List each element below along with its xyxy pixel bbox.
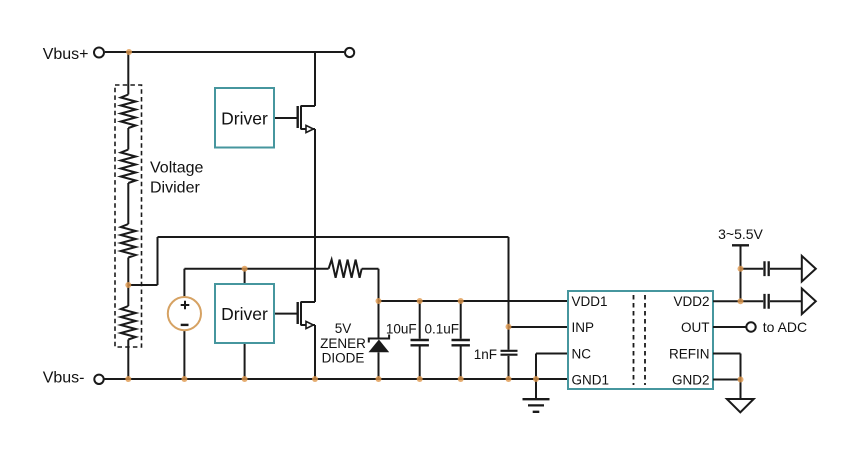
svg-text:to ADC: to ADC xyxy=(763,319,807,335)
svg-text:Vbus-: Vbus- xyxy=(43,370,85,387)
svg-text:VDD1: VDD1 xyxy=(572,294,608,309)
svg-text:ZENER: ZENER xyxy=(320,336,366,351)
svg-text:0.1uF: 0.1uF xyxy=(425,322,460,337)
svg-text:10uF: 10uF xyxy=(386,322,417,337)
svg-text:Vbus+: Vbus+ xyxy=(43,46,89,63)
svg-text:NC: NC xyxy=(572,346,592,361)
svg-text:5V: 5V xyxy=(335,321,352,336)
svg-text:GND1: GND1 xyxy=(572,372,610,387)
svg-text:DIODE: DIODE xyxy=(322,350,365,365)
svg-text:VDD2: VDD2 xyxy=(673,294,709,309)
svg-text:1nF: 1nF xyxy=(474,347,497,362)
svg-text:Divider: Divider xyxy=(150,179,200,196)
svg-text:Voltage: Voltage xyxy=(150,160,203,177)
svg-text:INP: INP xyxy=(572,320,595,335)
svg-text:OUT: OUT xyxy=(681,320,710,335)
svg-text:REFIN: REFIN xyxy=(669,346,710,361)
svg-text:Driver: Driver xyxy=(221,304,268,324)
svg-text:Driver: Driver xyxy=(221,108,268,128)
svg-text:3~5.5V: 3~5.5V xyxy=(718,226,763,242)
svg-text:GND2: GND2 xyxy=(672,372,710,387)
